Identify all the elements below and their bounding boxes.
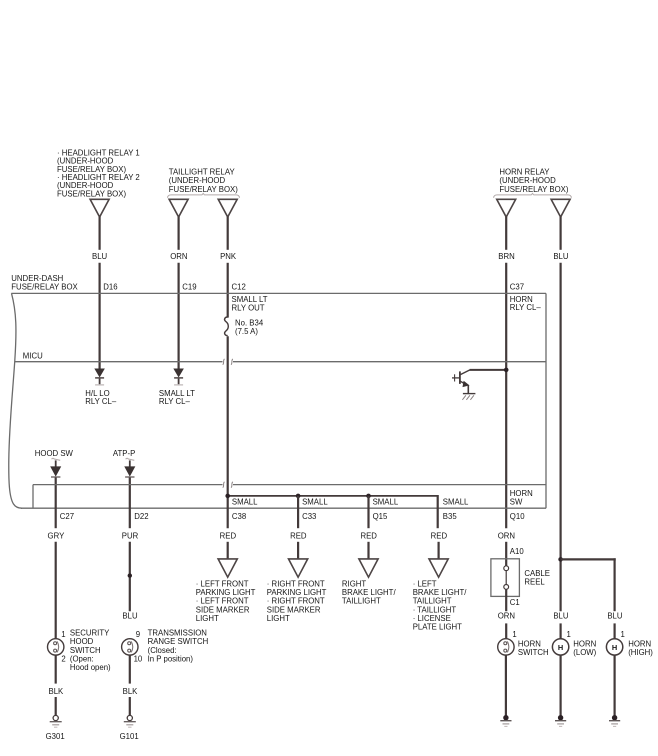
svg-text:GRY: GRY <box>48 532 66 541</box>
svg-text:(HIGH): (HIGH) <box>628 648 653 657</box>
relay source triangle (horn 2) <box>551 199 570 217</box>
svg-text:Q10: Q10 <box>510 512 525 521</box>
svg-text:LIGHT: LIGHT <box>196 614 219 623</box>
cable reel box <box>491 559 520 597</box>
svg-text:REEL: REEL <box>524 577 545 586</box>
svg-text:C1: C1 <box>510 598 520 607</box>
svg-text:RED: RED <box>431 532 448 541</box>
label HEADLIGHT RELAY 1/2 <box>57 148 140 198</box>
svg-text:LIGHT: LIGHT <box>267 614 290 623</box>
svg-text:TAILLIGHT: TAILLIGHT <box>342 597 381 606</box>
destination text left brake <box>413 580 468 632</box>
wire RED to right brake <box>367 542 369 559</box>
svg-text:HOOD: HOOD <box>70 637 94 646</box>
MICU top line (right part) <box>233 361 546 363</box>
wire RED to right front parking <box>297 542 299 559</box>
svg-text:1: 1 <box>61 630 65 639</box>
svg-text:TAILLIGHT RELAY: TAILLIGHT RELAY <box>169 168 236 177</box>
svg-text:In P position): In P position) <box>148 655 194 664</box>
wire below horn switch <box>505 655 507 716</box>
cable reel bottom contact <box>504 585 509 590</box>
svg-text:1: 1 <box>621 630 625 639</box>
svg-text:BLU: BLU <box>122 612 138 621</box>
security hood switch S1 <box>48 639 64 655</box>
transistor ground hatches <box>462 395 466 400</box>
bracket under taillight relay label <box>168 193 240 197</box>
svg-text:(Closed:: (Closed: <box>148 646 177 655</box>
svg-text:(UNDER-HOOD: (UNDER-HOOD <box>499 176 556 185</box>
transistor base tick <box>454 374 456 381</box>
MICU bottom line (left part) <box>33 484 223 486</box>
junction dot bus/Q15 <box>366 494 371 499</box>
svg-text:RLY OUT: RLY OUT <box>232 304 265 313</box>
MICU arrow input H/L LO RLY CL <box>95 369 104 377</box>
svg-text:BLU: BLU <box>553 612 569 621</box>
bus drop to Q15 <box>367 496 369 528</box>
bus drop to C33 <box>297 496 299 528</box>
label TRANSMISSION RANGE SWITCH <box>148 628 209 663</box>
crossover hook marks at MICU top line <box>223 359 225 365</box>
svg-text:H: H <box>558 643 563 652</box>
crossover hook marks at MICU bottom line <box>223 482 225 488</box>
svg-text:HORN RELAY: HORN RELAY <box>499 168 550 177</box>
svg-text:MICU: MICU <box>23 351 43 360</box>
cable reel link <box>505 571 507 585</box>
bracket under horn relay label <box>494 193 572 197</box>
svg-text:PLATE LIGHT: PLATE LIGHT <box>413 623 462 632</box>
svg-text:RLY CL–: RLY CL– <box>159 397 191 406</box>
output triangle to left brake light <box>429 559 448 577</box>
bus corner drop to B35 <box>437 495 439 528</box>
svg-text:BLK: BLK <box>49 687 65 696</box>
wire ORN to cable reel <box>505 542 507 566</box>
svg-text:FUSE/RELAY BOX): FUSE/RELAY BOX) <box>169 185 238 194</box>
wire PNK continues below fuse <box>227 336 229 528</box>
wire BLK below transmission switch <box>129 655 131 684</box>
svg-text:C27: C27 <box>60 512 74 521</box>
label SECURITY HOOD SWITCH <box>70 628 111 672</box>
ground under horn high <box>609 715 620 726</box>
svg-text:BLU: BLU <box>92 252 108 261</box>
svg-text:FUSE/RELAY BOX): FUSE/RELAY BOX) <box>57 189 126 198</box>
horn low M1 <box>552 639 568 655</box>
MICU bottom line (right part) <box>233 484 546 486</box>
relay source triangle (horn 1) <box>497 199 516 217</box>
svg-text:1: 1 <box>512 630 516 639</box>
under-dash fuse/relay box top edge <box>11 292 546 294</box>
horn high branch horizontal <box>561 558 616 560</box>
HOOD SW input arrow <box>52 458 61 460</box>
wire GRY lower <box>55 542 57 639</box>
svg-text:BRN: BRN <box>498 252 514 261</box>
svg-text:RED: RED <box>360 532 377 541</box>
destination text right front <box>267 580 327 623</box>
svg-text:A10: A10 <box>510 547 525 556</box>
relay source triangle (taillight 1) <box>169 199 188 217</box>
svg-text:PNK: PNK <box>220 252 237 261</box>
svg-text:FUSE/RELAY BOX: FUSE/RELAY BOX <box>11 283 78 292</box>
transistor collector diagonal <box>460 370 470 375</box>
transistor emitter vertical <box>467 385 469 393</box>
under-dash fuse/relay box torn left edge <box>9 293 22 508</box>
svg-text:ATP-P: ATP-P <box>113 449 135 458</box>
svg-text:HOOD SW: HOOD SW <box>35 449 74 458</box>
ground under horn low <box>555 715 566 726</box>
MICU bottom step vertical <box>32 485 34 509</box>
transistor base lead <box>452 377 459 379</box>
svg-text:D22: D22 <box>134 512 148 521</box>
wire from ATP-P arrow down <box>129 478 131 529</box>
ground G101 <box>124 715 136 727</box>
svg-text:SECURITY: SECURITY <box>70 628 110 637</box>
under-dash fuse/relay box right edge <box>545 293 547 508</box>
svg-text:(7.5 A): (7.5 A) <box>235 327 258 336</box>
svg-text:Hood open): Hood open) <box>70 663 111 672</box>
horn switch S3 <box>498 639 514 655</box>
svg-text:C38: C38 <box>232 512 246 521</box>
wire BLU from horn relay 2 <box>559 217 561 250</box>
transistor emitter with arrow <box>460 381 466 384</box>
svg-text:SMALL: SMALL <box>443 498 469 507</box>
svg-text:SMALL: SMALL <box>373 498 399 507</box>
cable reel top contact <box>504 566 509 571</box>
svg-text:BLU: BLU <box>553 252 569 261</box>
svg-text:G301: G301 <box>46 732 65 741</box>
svg-text:RANGE SWITCH: RANGE SWITCH <box>148 637 209 646</box>
wire below horn high <box>613 655 615 716</box>
svg-text:(UNDER-HOOD: (UNDER-HOOD <box>169 176 226 185</box>
wire BLU to horn low <box>559 623 561 638</box>
ATP-P input arrow <box>126 458 135 460</box>
svg-text:H: H <box>612 643 617 652</box>
svg-text:RLY CL–: RLY CL– <box>510 303 542 312</box>
svg-text:PUR: PUR <box>122 532 139 541</box>
MICU top line (left part) <box>15 361 223 363</box>
splice dot on PUR/BLU wire <box>128 573 132 577</box>
destination text right brake <box>342 580 397 606</box>
svg-text:ORN: ORN <box>170 252 187 261</box>
ground G301 <box>50 715 62 727</box>
relay source triangle (taillight 2) <box>218 199 237 217</box>
transistor Q (horn relay driver) collector wire <box>470 369 506 371</box>
label HORN RELAY <box>499 168 568 194</box>
svg-text:SMALL: SMALL <box>232 498 258 507</box>
svg-text:FUSE/RELAY BOX): FUSE/RELAY BOX) <box>499 185 568 194</box>
svg-text:SWITCH: SWITCH <box>518 648 549 657</box>
svg-text:B35: B35 <box>443 512 458 521</box>
junction dot bus/C38 <box>225 494 230 499</box>
svg-text:RED: RED <box>220 532 237 541</box>
wire from cable reel down <box>505 589 507 611</box>
svg-text:9: 9 <box>136 630 140 639</box>
svg-text:G101: G101 <box>120 732 139 741</box>
svg-text:C33: C33 <box>302 512 316 521</box>
ground under horn switch <box>500 715 511 726</box>
svg-text:(Open:: (Open: <box>70 655 94 664</box>
svg-text:SMALL: SMALL <box>302 498 328 507</box>
small-light bus wire <box>228 495 438 497</box>
transistor base bar <box>459 371 461 384</box>
svg-text:1: 1 <box>567 630 571 639</box>
svg-text:BLK: BLK <box>123 687 139 696</box>
horn high branch vertical <box>613 558 615 611</box>
wire PUR/BLU lower <box>129 542 131 611</box>
svg-text:SW: SW <box>510 497 523 506</box>
svg-text:C37: C37 <box>510 283 524 292</box>
svg-text:C19: C19 <box>182 283 196 292</box>
svg-text:ORN: ORN <box>498 612 515 621</box>
wire below horn low <box>559 655 561 716</box>
svg-text:2: 2 <box>61 655 65 664</box>
svg-text:D16: D16 <box>103 283 117 292</box>
wire RED to left brake <box>438 542 440 559</box>
MICU arrow input SMALL LT RLY CL <box>174 369 183 377</box>
wire BLU to horn high <box>613 623 615 638</box>
transistor ground bar <box>463 393 476 395</box>
wire from HOOD SW arrow down <box>55 478 57 529</box>
wire BLK below security switch <box>55 655 57 684</box>
svg-text:SWITCH: SWITCH <box>70 646 101 655</box>
svg-text:ORN: ORN <box>498 532 515 541</box>
destination text left front <box>196 580 256 623</box>
wire RED to left front parking <box>227 542 229 559</box>
junction dot at collector / horn wire <box>504 368 509 373</box>
horn high M2 <box>606 639 622 655</box>
wire ORN from taillight relay <box>178 217 180 250</box>
junction dot bus/C33 <box>296 494 301 499</box>
label TAILLIGHT RELAY <box>169 168 238 194</box>
svg-text:RED: RED <box>290 532 307 541</box>
junction dot horn branch <box>558 557 563 562</box>
under-dash fuse/relay box bottom edge <box>21 507 546 509</box>
transmission range switch S2 <box>122 639 138 655</box>
svg-text:(LOW): (LOW) <box>573 648 596 657</box>
relay source triangle (headlight) <box>90 199 109 217</box>
svg-text:10: 10 <box>134 655 143 664</box>
output triangle to right brake light <box>359 559 378 577</box>
svg-text:RLY CL–: RLY CL– <box>85 397 117 406</box>
wire BRN from horn relay <box>505 217 507 250</box>
output triangle to left front parking light <box>218 559 237 577</box>
svg-text:Q15: Q15 <box>373 512 388 521</box>
wire ORN to horn switch <box>505 623 507 638</box>
output triangle to right front parking light <box>289 559 308 577</box>
wire BLU from headlight relay <box>98 217 100 250</box>
wire PNK from taillight relay <box>227 217 229 250</box>
svg-text:BLU: BLU <box>607 612 623 621</box>
svg-text:TRANSMISSION: TRANSMISSION <box>148 628 207 637</box>
svg-text:C12: C12 <box>232 283 246 292</box>
fuse No. B34 symbol <box>225 317 229 336</box>
